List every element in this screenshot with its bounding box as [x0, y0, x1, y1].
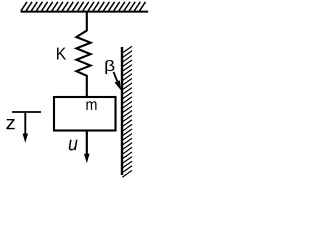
- z arrow shaft: [24, 112, 26, 134]
- u arrow head: [84, 154, 90, 163]
- label z: [6, 119, 14, 129]
- ceiling hatching: [21, 2, 146, 11]
- beta arrow head: [115, 80, 122, 90]
- wall hatching: [122, 46, 132, 177]
- label beta: [105, 60, 114, 74]
- fixed ceiling support line: [21, 11, 149, 13]
- mass m block: [54, 97, 116, 131]
- z arrow head: [23, 134, 28, 144]
- u arrow shaft: [86, 131, 88, 155]
- label K: [57, 48, 66, 60]
- wall (right side): [121, 47, 123, 175]
- beta arrow shaft: [114, 72, 118, 81]
- label u: [69, 140, 78, 151]
- z datum horizontal line: [12, 111, 41, 113]
- spring K (hanger wire + zigzag + lower wire to mass): [76, 12, 90, 97]
- label m: [86, 101, 96, 110]
